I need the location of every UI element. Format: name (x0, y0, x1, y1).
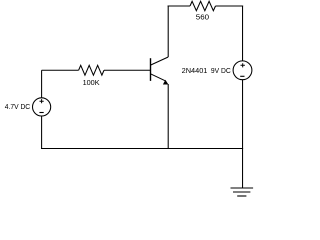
resistor R1 100K (79, 65, 104, 87)
svg-text:2N4401: 2N4401 (182, 66, 208, 75)
wire emitter vertical (167, 84, 169, 149)
wire base rail (V1 node to resistor R1) (42, 69, 79, 71)
resistor R2 560 (190, 1, 216, 21)
wire base rail (resistor R1 to transistor base) (104, 69, 150, 71)
dc source V2 9V DC (211, 61, 252, 80)
wire top rail right segment (resistor R2 to V2 node) (216, 5, 244, 7)
svg-text:9V DC: 9V DC (211, 66, 231, 75)
ground (231, 188, 254, 196)
svg-text:100K: 100K (83, 78, 100, 87)
wire bottom rail (41, 148, 243, 150)
wire collector vertical (167, 6, 169, 58)
wire left vertical (V1 minus to bottom rail) (41, 116, 43, 149)
svg-text:4.7V DC: 4.7V DC (5, 102, 31, 111)
transistor Q1 2N4401 (151, 57, 208, 85)
wire right vertical (top rail to V2 plus) (242, 6, 244, 62)
wire top rail left segment (collector corner to resistor R2) (168, 5, 190, 7)
dc source V1 4.7V DC (5, 98, 51, 116)
svg-text:560: 560 (196, 12, 209, 21)
wire left vertical (base rail to V1 plus) (41, 70, 43, 98)
wire right vertical (V2 minus to ground) (242, 80, 244, 188)
